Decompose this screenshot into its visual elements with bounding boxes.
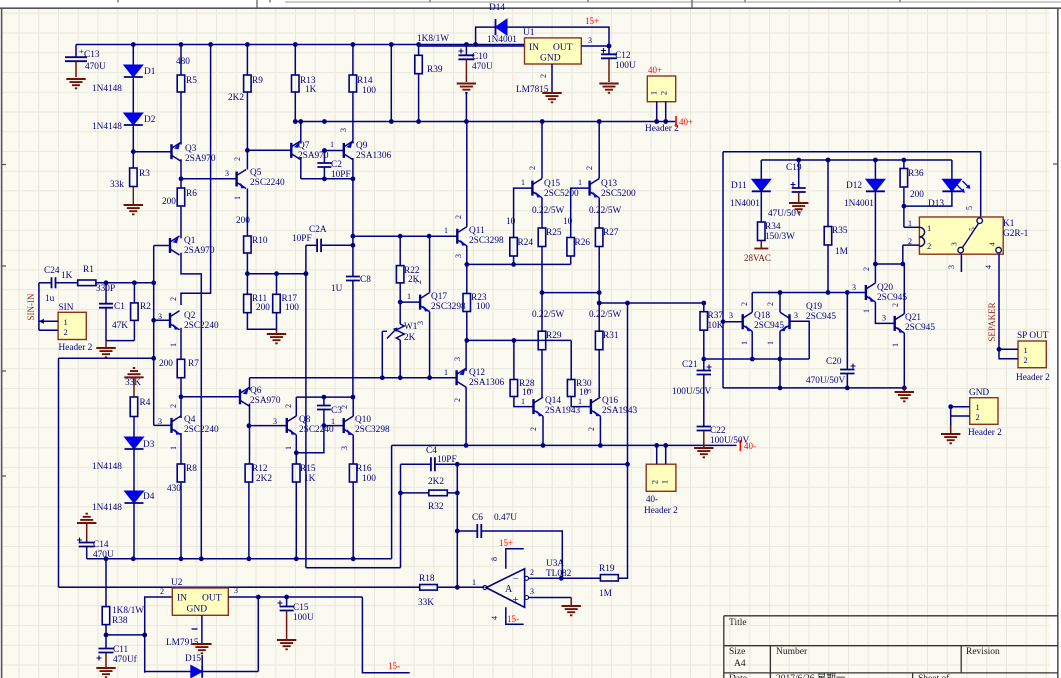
svg-text:2: 2 <box>740 302 749 306</box>
svg-text:8: 8 <box>490 557 499 561</box>
wire U2 GND pin <box>201 615 203 643</box>
diode D14 loop <box>476 27 496 44</box>
capacitor C2A <box>306 244 317 246</box>
wire outer loop top <box>723 152 981 217</box>
svg-text:R7: R7 <box>188 359 199 369</box>
svg-text:100U: 100U <box>615 61 636 71</box>
wire W1 wiper down <box>381 331 383 377</box>
resistor R39 <box>418 45 420 56</box>
svg-text:SIN: SIN <box>59 303 74 313</box>
wire R6-Q1 <box>180 206 182 238</box>
svg-text:470U: 470U <box>93 550 114 560</box>
wire inner rail <box>761 159 952 161</box>
wire Q10c up to C8 <box>352 397 354 416</box>
svg-text:2: 2 <box>454 215 463 219</box>
svg-text:1K: 1K <box>304 474 316 484</box>
svg-text:40+: 40+ <box>648 65 662 75</box>
wire R39-bus <box>418 74 420 122</box>
svg-text:2SC3298: 2SC3298 <box>355 425 390 435</box>
svg-text:2SC945: 2SC945 <box>806 312 836 322</box>
pin4 supply 15- <box>506 607 524 624</box>
resistor R12 <box>245 464 253 482</box>
svg-text:R24: R24 <box>518 238 534 248</box>
svg-text:200: 200 <box>159 359 173 369</box>
svg-text:1: 1 <box>862 309 871 313</box>
svg-text:Q1: Q1 <box>184 236 196 246</box>
svg-text:C22: C22 <box>710 426 726 436</box>
svg-text:R1: R1 <box>83 265 94 275</box>
pin2 wire <box>525 576 529 580</box>
svg-text:15-: 15- <box>388 661 400 671</box>
net marker 40+ <box>675 116 677 127</box>
wire D3-D4 <box>133 448 135 491</box>
wire rail branch down <box>390 45 392 122</box>
wire Q18e down <box>751 331 753 359</box>
svg-text:2: 2 <box>766 302 775 306</box>
wire R30-Q16 base <box>571 397 591 407</box>
ground C13 <box>66 79 85 88</box>
svg-text:470U/50V: 470U/50V <box>806 376 846 386</box>
svg-text:R26: R26 <box>575 238 591 248</box>
svg-text:D3: D3 <box>143 440 155 450</box>
svg-text:R10: R10 <box>252 236 268 246</box>
wire Q6e up to wire377 <box>249 378 251 390</box>
svg-text:2SC2240: 2SC2240 <box>299 425 334 435</box>
wire Q11 base row <box>353 235 457 237</box>
svg-text:1: 1 <box>444 368 448 377</box>
svg-text:3: 3 <box>584 389 593 393</box>
wire +rail <box>76 44 525 46</box>
wire D13 to R36 node <box>904 190 952 206</box>
wire R22-W1 node <box>399 283 401 324</box>
svg-text:33K: 33K <box>125 378 141 388</box>
svg-text:33K: 33K <box>418 598 434 608</box>
wire Q9 base <box>324 150 343 152</box>
wire Q16e to bus40- <box>599 416 601 445</box>
svg-text:10PF: 10PF <box>292 234 312 244</box>
wire emitter row q18 q19 <box>704 358 809 360</box>
wire R7-Q4 with Q6 base tap <box>180 378 182 418</box>
svg-text:2SC2240: 2SC2240 <box>184 425 219 435</box>
svg-text:TL082: TL082 <box>546 569 572 579</box>
resistor R30 <box>570 340 572 379</box>
svg-text:1: 1 <box>660 480 670 484</box>
svg-text:100: 100 <box>362 86 376 96</box>
svg-text:Q10: Q10 <box>355 415 371 425</box>
svg-text:1N4148: 1N4148 <box>92 462 122 472</box>
svg-text:100U/50V: 100U/50V <box>672 387 712 397</box>
wire Q5e-R10 <box>246 189 248 237</box>
svg-text:4: 4 <box>490 616 499 620</box>
wire R29 chain <box>541 293 543 332</box>
resistor R27 <box>595 228 603 247</box>
svg-text:Q13: Q13 <box>601 179 617 189</box>
svg-text:1K: 1K <box>305 85 317 95</box>
transistor Q20 <box>865 285 867 300</box>
capacitor C11 <box>99 649 114 653</box>
resistor R38 <box>105 559 107 607</box>
svg-text:2: 2 <box>585 166 594 170</box>
wire Q5c-Q7b <box>247 149 291 151</box>
svg-text:3: 3 <box>947 265 956 269</box>
ground C11 <box>96 668 115 677</box>
svg-text:1N4001: 1N4001 <box>844 199 874 209</box>
svg-text:R4: R4 <box>140 398 151 408</box>
resistor R13 <box>294 45 296 76</box>
resistor R3 <box>130 168 138 187</box>
svg-text:3: 3 <box>225 169 229 178</box>
svg-text:OUT: OUT <box>202 594 222 604</box>
wire W1 bottom <box>399 340 401 378</box>
svg-text:100U: 100U <box>293 613 314 623</box>
svg-text:Q18: Q18 <box>754 311 770 321</box>
transistor Q6 <box>239 389 241 404</box>
wire outer loop left <box>722 152 724 388</box>
svg-text:Header 2: Header 2 <box>59 343 93 353</box>
svg-text:R14: R14 <box>357 76 373 86</box>
resistor R11 <box>244 294 252 312</box>
svg-text:2: 2 <box>169 404 178 408</box>
ground protection bus <box>903 388 905 391</box>
svg-text:R2: R2 <box>140 302 151 312</box>
svg-text:Q15: Q15 <box>544 179 560 189</box>
ground C22 <box>703 431 705 447</box>
wire R14-Q9c <box>352 92 354 144</box>
wire Q6c down <box>249 404 251 465</box>
resistor R32 <box>401 492 429 494</box>
resistor R14 <box>352 45 354 76</box>
svg-text:R19: R19 <box>599 564 615 574</box>
svg-text:2: 2 <box>169 297 178 301</box>
svg-text:Q11: Q11 <box>469 226 485 236</box>
svg-text:R32: R32 <box>428 502 444 512</box>
resistor R1 <box>56 282 78 284</box>
wire Q7c to bus <box>300 122 302 144</box>
svg-text:2K: 2K <box>404 333 416 343</box>
svg-text:1: 1 <box>233 196 242 200</box>
svg-text:Q7: Q7 <box>298 141 310 151</box>
svg-text:R27: R27 <box>603 228 619 238</box>
wire R37 bottom node <box>703 330 705 359</box>
wire Q19e down <box>779 331 781 388</box>
svg-text:0.22/5W: 0.22/5W <box>589 206 622 216</box>
regulator U1 <box>419 45 525 47</box>
svg-text:Q2: Q2 <box>184 311 196 321</box>
svg-text:D15: D15 <box>185 654 201 664</box>
resistor R37 <box>700 312 708 331</box>
svg-text:2: 2 <box>233 157 242 161</box>
svg-text:2SC2240: 2SC2240 <box>250 178 285 188</box>
svg-text:28VAC: 28VAC <box>744 253 771 263</box>
wire C4 left leg <box>400 464 402 493</box>
svg-text:200: 200 <box>910 190 924 200</box>
transistor Q17 <box>419 295 421 310</box>
svg-text:1: 1 <box>330 140 334 149</box>
wire Q21c up <box>903 264 905 314</box>
svg-text:3: 3 <box>234 586 238 595</box>
svg-text:D1: D1 <box>144 67 156 77</box>
svg-text:10PF: 10PF <box>331 170 351 180</box>
resistor R9 <box>246 45 248 76</box>
svg-text:100: 100 <box>476 302 490 312</box>
resistor R10 <box>244 236 252 253</box>
svg-text:C24: C24 <box>44 266 60 276</box>
svg-text:5: 5 <box>968 227 977 231</box>
wire Q13c to bus <box>598 122 600 179</box>
svg-text:480: 480 <box>176 57 190 67</box>
svg-text:3: 3 <box>339 128 348 132</box>
svg-text:R31: R31 <box>603 331 619 341</box>
capacitor C2 <box>323 151 325 164</box>
capacitor C3 <box>323 397 325 405</box>
svg-text:3: 3 <box>416 321 425 325</box>
wire K1 pin3 stub <box>960 254 962 272</box>
svg-text:1K8/1W: 1K8/1W <box>112 606 144 616</box>
diode D4 <box>125 491 144 503</box>
wire Q21e down <box>903 333 905 388</box>
transistor Q1 <box>169 238 171 253</box>
resistor R8 <box>177 464 185 482</box>
wire collector row <box>752 292 866 294</box>
svg-text:C13: C13 <box>84 50 100 60</box>
wire emitter row to R24 R26 <box>467 263 571 265</box>
resistor R4 <box>130 397 138 417</box>
wire Q17e down <box>429 312 431 378</box>
transistor Q8 <box>286 418 288 433</box>
ground C10 <box>457 84 476 93</box>
wire U2 OUT row <box>228 596 362 598</box>
pin3 wire <box>525 596 529 600</box>
svg-text:R18: R18 <box>419 574 435 584</box>
ground C15 <box>277 640 296 649</box>
node R38 bottom <box>105 625 107 635</box>
wire D1-D2 <box>132 76 134 113</box>
svg-text:3: 3 <box>340 446 349 450</box>
transistor Q15 <box>531 181 533 196</box>
svg-text:40-: 40- <box>646 494 658 504</box>
transistor Q4 <box>170 418 172 433</box>
svg-text:2SC945: 2SC945 <box>905 323 935 333</box>
wire C1-R2 bottom <box>106 340 134 342</box>
capacitor C21 <box>703 359 705 371</box>
wire R38-U2in leg <box>106 634 145 636</box>
wire Q9e down to C8 chain <box>352 158 354 277</box>
svg-text:2: 2 <box>160 587 164 596</box>
capacitor C24 <box>39 282 52 284</box>
svg-text:2: 2 <box>927 241 931 251</box>
wire Q18c up <box>751 293 753 313</box>
svg-text:D11: D11 <box>731 181 747 191</box>
svg-text:SP OUT: SP OUT <box>1017 331 1049 341</box>
svg-text:2: 2 <box>284 404 293 408</box>
diode D2 <box>124 113 143 125</box>
svg-text:R15: R15 <box>300 464 316 474</box>
transistor Q2 <box>169 313 171 328</box>
ground C19 <box>789 203 808 212</box>
svg-text:R36: R36 <box>908 169 924 179</box>
svg-text:Revision: Revision <box>966 647 1000 657</box>
wire output row <box>599 302 704 304</box>
svg-text:Header 2: Header 2 <box>644 506 678 516</box>
svg-text:C14: C14 <box>93 540 109 550</box>
svg-text:5: 5 <box>965 206 974 210</box>
capacitor C12 <box>601 54 617 58</box>
svg-text:D4: D4 <box>143 492 155 502</box>
svg-text:Header 2: Header 2 <box>968 428 1002 438</box>
wire to Q8 node <box>306 567 401 569</box>
svg-text:Q16: Q16 <box>602 396 618 406</box>
wire R28-Q14 base <box>514 397 534 407</box>
svg-text:Date: Date <box>729 674 747 678</box>
svg-text:200: 200 <box>256 303 270 313</box>
svg-text:40+: 40+ <box>679 117 693 127</box>
wire Q8e-R15 <box>295 435 297 464</box>
svg-text:47U/50V: 47U/50V <box>768 209 803 219</box>
diode D14 <box>496 19 508 35</box>
svg-text:1K8/1W: 1K8/1W <box>417 34 449 44</box>
svg-text:1: 1 <box>927 223 931 233</box>
svg-text:R29: R29 <box>546 331 562 341</box>
svg-text:R12: R12 <box>252 464 268 474</box>
svg-text:470U: 470U <box>85 62 106 72</box>
ground inverted R4 <box>124 368 143 377</box>
transistor Q14 <box>532 399 534 414</box>
ground pin3 <box>570 598 572 606</box>
wire Q7e down <box>300 157 302 179</box>
diode D13 LED <box>951 160 953 179</box>
wire R24 top to Q15 base <box>514 188 533 237</box>
svg-text:2: 2 <box>529 427 538 431</box>
wire R32 right leg <box>447 492 457 494</box>
svg-text:1: 1 <box>649 91 659 95</box>
svg-text:100U/50V: 100U/50V <box>710 436 750 446</box>
svg-text:3: 3 <box>530 587 534 596</box>
wire Q1 base <box>154 245 170 247</box>
wire Q2c to rail <box>181 45 211 306</box>
resistor R17 <box>276 274 278 295</box>
wire gnd-R4 <box>133 377 135 397</box>
svg-text:R3: R3 <box>139 169 150 179</box>
svg-text:D2: D2 <box>144 115 156 125</box>
resistor R29 <box>538 331 546 350</box>
svg-text:C11: C11 <box>113 645 129 655</box>
op-amp U3A <box>486 569 524 608</box>
wire D4-bus <box>133 502 135 559</box>
wire R26 top to Q13 base <box>571 188 590 237</box>
resistor R18 <box>59 586 420 588</box>
svg-text:1: 1 <box>472 578 476 587</box>
svg-text:R38: R38 <box>112 616 128 626</box>
svg-text:1: 1 <box>521 178 525 187</box>
svg-text:3: 3 <box>453 357 462 361</box>
svg-text:GND: GND <box>540 54 561 64</box>
svg-text:Size: Size <box>729 647 745 657</box>
wire Q12e up <box>465 340 467 371</box>
header SIN <box>58 312 86 339</box>
diode D15 loop <box>257 597 259 672</box>
wire Q10 base <box>324 425 344 427</box>
svg-text:Q9: Q9 <box>356 141 368 151</box>
wire R4-D3 <box>133 417 135 438</box>
net marker 40- <box>739 440 741 451</box>
wire R8-bus <box>180 482 182 559</box>
bus -rail bottom <box>87 558 392 560</box>
wire SIN to opamp line <box>59 357 154 359</box>
resistor R23 <box>463 294 471 312</box>
svg-text:R5: R5 <box>186 76 197 86</box>
svg-text:Number: Number <box>776 647 808 657</box>
svg-text:Q20: Q20 <box>877 283 893 293</box>
svg-text:2: 2 <box>976 412 980 422</box>
wire Q7-C2-Q9 emitters <box>301 178 353 180</box>
svg-text:R34: R34 <box>765 222 781 232</box>
relay K1 <box>919 217 1003 254</box>
wire Q13e to R27 <box>598 198 600 228</box>
svg-text:0.22/5W: 0.22/5W <box>589 310 622 320</box>
svg-text:R9: R9 <box>252 76 263 86</box>
vertical Q2/Q4 base line <box>153 283 155 426</box>
svg-text:1K: 1K <box>61 271 73 281</box>
svg-text:LM7915: LM7915 <box>166 638 199 648</box>
svg-text:C6: C6 <box>472 513 483 523</box>
svg-text:200: 200 <box>162 197 176 207</box>
output sense vertical <box>627 303 629 464</box>
svg-text:R16: R16 <box>356 464 372 474</box>
wire Q17c up <box>429 236 431 292</box>
vertical to Q1 base <box>153 246 155 283</box>
potentiometer W1 <box>396 324 404 340</box>
diode D12 <box>874 160 876 179</box>
transistor Q21 <box>894 316 896 331</box>
svg-text:GND: GND <box>969 388 989 398</box>
svg-text:2: 2 <box>587 427 596 431</box>
svg-text:2: 2 <box>414 280 423 284</box>
header 40- <box>646 464 676 491</box>
svg-text:D13: D13 <box>928 199 944 209</box>
svg-text:K1: K1 <box>1003 219 1015 229</box>
svg-text:U3A: U3A <box>546 559 564 569</box>
svg-text:Q5: Q5 <box>250 168 262 178</box>
svg-text:Q12: Q12 <box>469 368 485 378</box>
svg-text:3: 3 <box>794 311 798 320</box>
svg-text:470U: 470U <box>472 62 493 72</box>
svg-text:U1: U1 <box>523 28 535 38</box>
bus protection bottom <box>723 387 904 389</box>
bus 40- <box>392 444 737 446</box>
svg-text:0.22/5W: 0.22/5W <box>532 206 565 216</box>
transistor Q13 <box>588 181 590 196</box>
svg-text:0.47U: 0.47U <box>494 513 517 523</box>
capacitor C6 <box>457 530 477 532</box>
svg-text:1u: 1u <box>45 294 55 304</box>
svg-text:D14: D14 <box>489 3 505 13</box>
ground U2 <box>192 644 211 653</box>
diode D1 <box>132 45 134 66</box>
wire Q6c to Q8 base <box>249 425 287 427</box>
svg-text:2SC3298: 2SC3298 <box>469 236 504 246</box>
svg-text:2: 2 <box>530 568 534 577</box>
svg-text:15-: 15- <box>507 614 519 624</box>
resistor R34 <box>758 222 766 241</box>
svg-text:+: + <box>513 594 519 606</box>
node Q3-R6 <box>180 159 182 188</box>
svg-text:C10: C10 <box>472 52 488 62</box>
svg-text:C2A: C2A <box>309 225 327 235</box>
wire Q17 base <box>400 301 420 303</box>
svg-text:Q3: Q3 <box>185 144 197 154</box>
svg-text:Header 2: Header 2 <box>645 124 679 134</box>
wire Q3e-Q5b <box>181 178 237 180</box>
